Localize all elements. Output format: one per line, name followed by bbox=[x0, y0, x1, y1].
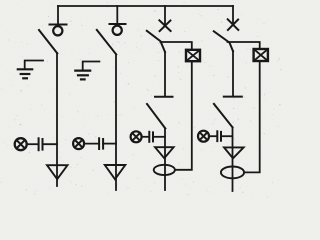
wire lamp L1 to capacitor C1 bbox=[27, 143, 38, 145]
indicator box K4 bbox=[254, 49, 268, 61]
wire branch to indicator box K4 bbox=[228, 42, 260, 49]
disconnector blade S4 bbox=[214, 31, 233, 51]
fixed contact circle S1 bbox=[53, 26, 62, 35]
feeder stub column 4 (bus right corner drop) bbox=[232, 6, 234, 25]
earthing contact bar T3 bbox=[155, 96, 173, 98]
wire column 3 upper vertical bbox=[164, 52, 166, 97]
capacitor C4 plates bbox=[216, 131, 218, 141]
feeder stub column 2 bbox=[116, 6, 118, 24]
scan speckle bbox=[1, 2, 282, 198]
fixed contact circle S2 bbox=[113, 26, 122, 35]
ground G1 wire bbox=[25, 61, 43, 70]
instrument ellipse M3 bbox=[154, 165, 175, 175]
lamp L2 bbox=[73, 138, 84, 149]
wire branch to indicator box K3 bbox=[161, 42, 192, 50]
ground G2 bars bbox=[75, 69, 90, 71]
wire indicator box K3 to ellipse M3 bbox=[175, 61, 192, 170]
wire capacitor C3 to column 3 bbox=[153, 136, 165, 138]
capacitor C3 plates bbox=[148, 132, 150, 142]
disconnector blade S3 bbox=[147, 31, 165, 52]
wire column 3 lower vertical bbox=[164, 128, 166, 190]
arrester triangle A2 bbox=[105, 165, 126, 179]
fuse X mark F4 bbox=[228, 19, 239, 30]
lamp L4 bbox=[198, 131, 209, 142]
fixed contact bar S2 bbox=[110, 23, 126, 25]
fixed contact bar S1 bbox=[50, 24, 67, 26]
indicator box K3 bbox=[186, 50, 200, 61]
lamp L3 bbox=[131, 131, 142, 142]
capacitor C1 plates bbox=[38, 138, 40, 150]
fuse X mark F3 bbox=[159, 20, 170, 31]
lamp L1 bbox=[15, 138, 27, 150]
instrument ellipse M4 bbox=[221, 167, 244, 179]
capacitor C2 plates bbox=[98, 138, 100, 149]
wire column 2 vertical bbox=[115, 54, 117, 190]
arrester triangle A4 bbox=[224, 147, 244, 158]
wire indicator box K4 to ellipse M4 bbox=[244, 61, 260, 172]
earthing switch blade E3 bbox=[147, 104, 165, 128]
arrester triangle A1 bbox=[47, 165, 68, 179]
earthing contact bar T4 bbox=[224, 96, 242, 98]
wire lamp L4 to capacitor C4 bbox=[209, 135, 216, 137]
ground G1 bars bbox=[18, 68, 32, 70]
wire capacitor C4 to column 4 bbox=[221, 135, 232, 137]
arrester triangle A3 bbox=[155, 147, 174, 158]
paper background bbox=[0, 0, 282, 198]
feeder stub column 3 bbox=[164, 6, 166, 26]
wire column 4 lower vertical bbox=[232, 127, 234, 191]
wire capacitor C2 to column 2 bbox=[103, 143, 116, 145]
wire capacitor C1 to column 1 bbox=[43, 143, 58, 145]
wire column 4 upper vertical bbox=[232, 51, 234, 96]
feeder stub column 1 (bus left corner drop) bbox=[57, 6, 59, 24]
disconnector blade S2 bbox=[97, 30, 116, 55]
wire lamp L3 to capacitor C3 bbox=[142, 136, 149, 138]
earthing switch blade E4 bbox=[214, 104, 233, 127]
ground G2 wire bbox=[83, 62, 100, 71]
wire column 1 vertical bbox=[56, 53, 58, 186]
disconnector blade S1 bbox=[39, 30, 57, 53]
wire lamp L2 to capacitor C2 bbox=[84, 143, 98, 145]
top bus wire bbox=[58, 5, 233, 7]
